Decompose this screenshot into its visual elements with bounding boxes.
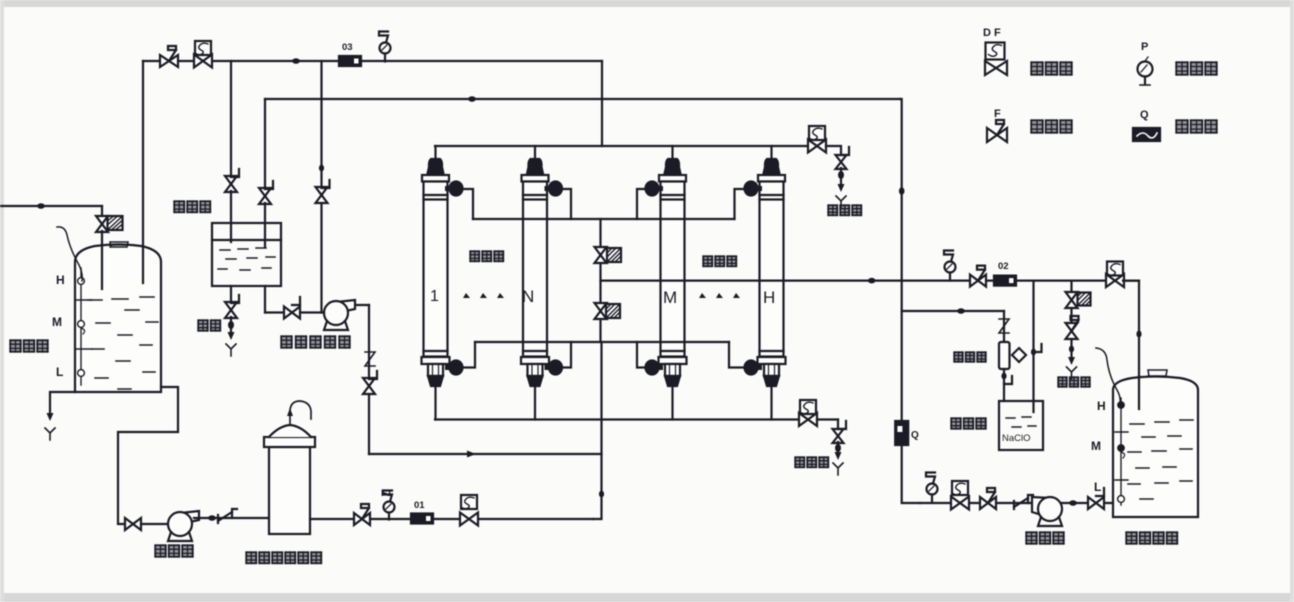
product tank water dashes (1128, 420, 1193, 499)
solenoid inlet valve on raw tank (96, 216, 108, 232)
chemical tank liquid surface (212, 239, 281, 241)
junction dot after backwash pump (1069, 500, 1077, 506)
bottom drain Y funnel (833, 463, 843, 475)
wire raw tank outlet to raw pump (118, 387, 178, 524)
backwash pump 反洗泵 (1032, 497, 1052, 517)
wire moduleN top port elbow (556, 189, 571, 219)
svg-text:N: N (522, 287, 534, 306)
solenoid valve DF on product line (1107, 262, 1123, 276)
label 反洗泵 (1026, 532, 1037, 544)
wire chem feed drop x=321.5 (320, 61, 322, 313)
wire module feed riser x=601.5 (593, 342, 602, 519)
wire valve to raw pump (141, 523, 168, 525)
metering tank liquid dashes (1006, 417, 1036, 427)
legend label 电磁阀 (1031, 62, 1043, 75)
check valve on backwash line (1014, 495, 1033, 509)
svg-text:F1: F1 (381, 488, 393, 499)
product tank level sensor H (1118, 402, 1124, 408)
pressure gauge on backwash line (927, 484, 938, 495)
manual valve near product tank (1088, 497, 1104, 509)
wire CIP pump suction y=312.5 (265, 311, 324, 313)
regulating valve after filter (354, 513, 370, 525)
wire top feed header y=61 (143, 60, 602, 62)
svg-text:L: L (56, 365, 63, 379)
hook valve on top drain (836, 155, 847, 169)
label 原水泵 (155, 545, 166, 557)
membrane module column H (745, 146, 786, 420)
wire module upper permeate line y=219 (473, 218, 735, 220)
wire normal drain drop x=1071.5 (1070, 281, 1072, 357)
junction dot on metering drop (1031, 349, 1036, 356)
manual valve on chem fill x=231 (225, 176, 237, 192)
wire bottom drain drop x=838 (837, 420, 839, 429)
svg-text:M: M (663, 288, 677, 307)
raw tank drain arrow (47, 413, 54, 421)
manual valve on CIP suction (284, 307, 300, 319)
wire raw-water inlet line y=206 (0, 205, 102, 207)
pressure gauge on permeate line (945, 262, 956, 273)
flow meter Q3 (339, 56, 361, 66)
junction dot on top header (292, 58, 300, 64)
label 膜组件 left (470, 251, 480, 262)
svg-text:D F: D F (983, 27, 1001, 39)
wire top-header drop into raw tank x=143 (142, 61, 144, 283)
Z symbol on dosing drop (999, 319, 1009, 333)
svg-text:H: H (1097, 399, 1106, 413)
chem drain arrow (228, 332, 235, 340)
svg-text:M: M (52, 315, 62, 329)
wire raw pump discharge (194, 517, 269, 519)
wire CIP suction riser from chem tank (264, 286, 266, 313)
wire inlet into raw tank (101, 231, 103, 289)
svg-text:P: P (1141, 41, 1148, 53)
wire top header right drop x=602 (601, 61, 603, 146)
label 正排放 (1058, 377, 1067, 387)
wire moduleM top port elbow (637, 189, 651, 219)
junction dot on permeate line (868, 278, 876, 284)
product tank level sensor M (1118, 445, 1124, 451)
raw tank drain wire (50, 392, 75, 413)
wire moduleN bottom port elbow (556, 342, 571, 368)
chemical tank 药液箱 shell (212, 223, 281, 286)
wire permeate/backwash header y=99 (265, 98, 900, 100)
label 计量箱 (951, 418, 961, 429)
hook valve on metering tank inlet (1004, 376, 1012, 384)
wire dosing drop x=1004 (1003, 311, 1005, 341)
svg-text:M: M (1091, 439, 1101, 453)
legend label 压力表 (1176, 62, 1188, 75)
bottom drain junction dot (835, 444, 841, 452)
raw tank level sensor H port (78, 278, 85, 285)
hook valve on bottom drain (833, 429, 844, 443)
junction dot on right riser (899, 187, 905, 195)
membrane module column N (521, 146, 562, 420)
pressure gauge P on top header (380, 43, 391, 54)
regulating valve V1 on top header (160, 55, 178, 67)
solenoid valve DF1 on top header (195, 41, 211, 55)
svg-text:02: 02 (998, 261, 1009, 272)
label 排污 (198, 320, 208, 331)
chem drain wire 2 (230, 317, 232, 332)
cartridge filter body (269, 447, 310, 534)
chem drain Y funnel (226, 344, 236, 356)
check valve after raw pump (218, 509, 237, 523)
raw tank drain Y funnel (45, 428, 55, 440)
junction dot on normal drain (1069, 346, 1074, 353)
svg-text:H: H (763, 288, 775, 307)
raw tank level sensor L port (78, 370, 85, 377)
solenoid valve DF on bottom drain (800, 400, 816, 414)
legend regulating valve symbol (987, 128, 1007, 142)
chemical tank liquid dashes (218, 248, 275, 270)
svg-text:L: L (1094, 480, 1101, 494)
regulating valve on normal drain (1066, 323, 1078, 339)
wire CIP return line y=454 (369, 453, 602, 455)
wire x=265 into chem tank (264, 203, 266, 247)
legend flow meter symbol (1133, 128, 1160, 141)
svg-text:03: 03 (342, 42, 353, 53)
raw water tank water level dashes (88, 297, 158, 389)
chem tank drain valve (225, 302, 237, 318)
product tank manhole cap (1148, 370, 1167, 376)
svg-text:01: 01 (414, 500, 425, 511)
junction dot on product drop (1136, 330, 1141, 337)
CIP pump discharge wire (348, 304, 369, 306)
top drain arrow (838, 184, 845, 192)
wire module bottom manifold y=419.5 (435, 418, 800, 420)
product tank sensor cable (1096, 348, 1120, 403)
ellipsis dots between M and H (699, 293, 740, 298)
junction dot on dosing branch (957, 308, 965, 314)
wire filter outlet y=519 (310, 518, 593, 520)
wire module1 top port elbow (457, 189, 473, 219)
sampling Z symbol on CIP discharge (365, 352, 375, 366)
legend label 调节阀 (1031, 120, 1043, 133)
bottom drain arrow (835, 452, 842, 460)
svg-text:Q: Q (911, 430, 919, 441)
solenoid valve DF on top drain (809, 126, 825, 140)
wire rotameter to metering tank (1003, 369, 1005, 401)
cartridge filter vent swan-neck (290, 401, 311, 425)
wire module1 bottom port elbow (457, 342, 475, 368)
normal drain arrow (1068, 357, 1075, 365)
label 计量泵 (954, 352, 963, 362)
svg-text:Q: Q (1140, 109, 1149, 121)
label 膜组件 right (703, 256, 713, 267)
flow meter Q2 (994, 276, 1016, 286)
label 下排放 (795, 457, 805, 468)
wire CIP pump discharge drop x=369 (368, 305, 370, 454)
legend label 流量计 (1176, 120, 1188, 133)
wire module lower side manifold y=342 (475, 341, 729, 343)
regulating valve on backwash line (980, 497, 996, 509)
legend pressure gauge symbol (1138, 62, 1153, 77)
wire product pipe inside product tank (1138, 376, 1140, 409)
top drain Y funnel (836, 196, 846, 208)
product tank level sensor L (1118, 496, 1125, 503)
flow meter Q on right riser (895, 421, 908, 445)
rotameter on dosing line (999, 342, 1010, 369)
junction dot on inlet line (37, 203, 45, 209)
cartridge filter dome (269, 425, 311, 437)
svg-text:NaClO: NaClO (1002, 433, 1031, 444)
manual valve on CIP discharge (363, 378, 375, 394)
wire module top manifold y=146 (435, 145, 808, 147)
ellipsis dots between 1 and N (463, 293, 504, 298)
raw tank level gauge tube (80, 268, 82, 385)
junction dot under rotameter (1001, 373, 1006, 380)
wire chem tank fill drop x=231 (230, 61, 232, 177)
solenoid valve DF lower middle (595, 303, 607, 319)
regulating valve on permeate line (970, 275, 986, 287)
label raw water tank 原水箱 (10, 340, 21, 352)
product water tank shell (1113, 377, 1198, 518)
wire permeate collection y=280.6 (601, 280, 1140, 282)
legend solenoid valve symbol (986, 43, 1005, 60)
raw tank level tick marks (76, 300, 92, 349)
normal drain Y funnel (1067, 367, 1077, 379)
wire product line drop into product tank (1123, 281, 1139, 409)
wire dosing branch y=311 (902, 310, 1004, 312)
wire metering suction drop x=1033.5 (1032, 281, 1034, 412)
chem tank drain wire (230, 286, 232, 303)
solenoid valve on normal drain (1066, 292, 1078, 308)
wire moduleH top port elbow (735, 189, 751, 219)
svg-text:F: F (994, 108, 1001, 120)
CIP circulating pump 清洗循环泵 (332, 300, 355, 311)
raw water tank shell (75, 245, 161, 393)
product tank level ticks (1115, 432, 1128, 480)
check diamond on dosing line (1012, 348, 1026, 362)
solenoid valve DF on module feed (461, 495, 477, 509)
flow meter Q1 (411, 514, 433, 524)
product tank level gauge tube (1120, 398, 1122, 505)
pressure gauge P1 (384, 502, 395, 513)
label 药液箱 (174, 201, 185, 213)
junction dot on header y=99 (468, 96, 476, 102)
wire chem fill into tank (230, 191, 232, 242)
chem drain junction dot (228, 321, 234, 329)
raw water tank manhole cap (110, 242, 128, 247)
manual valve on x=321.5 drop (316, 187, 328, 203)
junction dot on module feed riser (599, 491, 604, 498)
label 上排放 (828, 205, 838, 216)
label 清洗循环泵 (281, 336, 292, 348)
raw tank level sensor M port (78, 321, 85, 328)
raw tank level sensor cable (57, 227, 82, 281)
wire right riser x=901.7 (900, 99, 920, 503)
solenoid valve DF upper middle (595, 247, 607, 263)
metering tank 计量箱 shell (999, 401, 1043, 450)
wire moduleM bottom port elbow (637, 342, 651, 368)
top drain junction dot (838, 171, 844, 179)
flow arrow on CIP return line (467, 451, 476, 458)
junction dot on x=321.5 drop (319, 165, 324, 172)
label 产品水箱 (1126, 532, 1137, 544)
wire mid valve column x=600.5 (599, 219, 601, 342)
wire second-header drop x=265 (264, 99, 266, 189)
raw water pump 原水泵 (176, 511, 199, 522)
wire backwash line y=503 (920, 502, 1113, 504)
solenoid valve DF on backwash line (952, 481, 968, 495)
wire moduleH bottom port elbow (729, 342, 750, 368)
junction dot after raw pump (208, 515, 216, 521)
cartridge filter lid (264, 437, 315, 447)
manual valve on x=265 drop (259, 188, 271, 204)
label 5um filter 5μm过滤器 (246, 552, 257, 564)
wire inlet pipe inside raw tank (101, 246, 103, 289)
wire inlet drop x=102 (101, 206, 103, 217)
hook valve on metering drop (1034, 344, 1042, 352)
membrane module column M (646, 146, 687, 420)
membrane module column 1 (422, 146, 463, 420)
wire top drain elbow (826, 146, 841, 154)
wire top-header pipe inside raw tank (142, 246, 144, 283)
manual valve before raw pump (125, 518, 141, 530)
svg-text:1: 1 (430, 288, 439, 305)
top drain wire 2 (840, 168, 842, 184)
svg-text:H: H (56, 273, 65, 287)
